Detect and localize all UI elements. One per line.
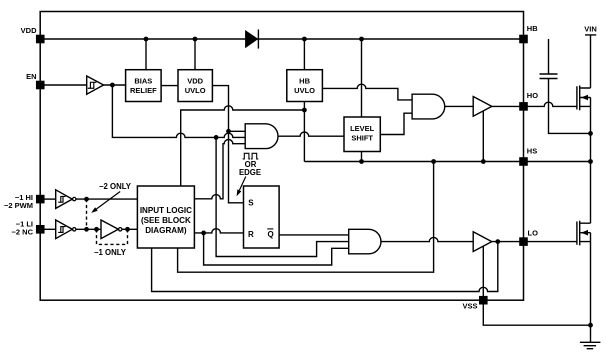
wire LO buffer output to LO pin and gate: [492, 241, 577, 243]
IC outline box: [40, 12, 523, 301]
node HO buffer ref junction: [481, 159, 486, 164]
pin VDD: [37, 35, 44, 42]
wire HI input to Schmitt inverter: [40, 198, 56, 200]
box BIAS RELIEF: [126, 70, 162, 102]
inverter optional -1 only: [101, 220, 118, 239]
svg-text:S: S: [248, 199, 254, 208]
svg-text:VDD: VDD: [21, 26, 37, 35]
wire LO buffer bottom reference to VSS pin: [482, 246, 484, 300]
box LEVEL SHIFT: [344, 117, 380, 152]
svg-text:BIAS: BIAS: [134, 77, 152, 86]
node diode-HBUVLO junction: [302, 37, 307, 42]
wire dashed inverter bypass (-1 option): [97, 229, 128, 244]
annotation arrow or-edge: [239, 177, 245, 191]
wire optional inverter output to INPUT LOGIC: [122, 228, 137, 230]
ground: [580, 342, 601, 348]
pin VSS: [480, 297, 487, 304]
svg-text:−2 ONLY: −2 ONLY: [99, 182, 132, 191]
wire EN down and across to high-side AND input 2: [112, 85, 245, 137]
and-gate low-side 3-input U5: [349, 229, 381, 254]
svg-text:−2 PWM: −2 PWM: [4, 201, 33, 210]
wire LEVEL SHIFT bottom to HS line: [361, 152, 363, 162]
wire VSS external to ground: [483, 300, 590, 325]
svg-text:HS: HS: [527, 146, 537, 155]
svg-text:LEVEL: LEVEL: [350, 124, 375, 133]
wire EN buffer output to BIAS RELIEF: [104, 84, 126, 86]
node ground junction: [588, 323, 593, 328]
wire INPUT LOGIC top to HB UVLO node: [181, 106, 305, 186]
capacitor C1 bootstrap: [540, 74, 558, 79]
node HI junction: [84, 197, 89, 202]
node VDD-BIAS junction: [144, 37, 149, 42]
svg-text:Q: Q: [268, 230, 274, 239]
wire BIAS RELIEF to VDD UVLO: [161, 85, 178, 87]
node R line junction: [201, 231, 206, 236]
node cap to source junction: [588, 131, 593, 136]
op-amp EN Schmitt buffer: [87, 76, 104, 94]
wire LI input to Schmitt inverter: [40, 228, 56, 230]
diode D1 bootstrap: [246, 31, 257, 47]
node HS feedback junction: [431, 159, 436, 164]
svg-text:RELIEF: RELIEF: [130, 86, 157, 95]
pin EN: [37, 81, 44, 88]
svg-text:DIAGRAM): DIAGRAM): [145, 226, 187, 235]
pin HI: [37, 196, 44, 203]
wire HB UVLO output to top AND input 1: [322, 84, 412, 100]
svg-text:HB: HB: [299, 77, 310, 86]
svg-text:SHIFT: SHIFT: [351, 134, 373, 143]
svg-text:HO: HO: [527, 91, 538, 100]
wire latch Q output to low-side AND input 1: [279, 234, 349, 236]
wire low-side source to ground: [590, 233, 592, 343]
svg-text:EDGE: EDGE: [239, 168, 261, 177]
node VDD UVLO to AND tap: [226, 129, 231, 134]
wire INPUT LOGIC to latch R input: [194, 229, 243, 233]
wire HB to bootstrap cap: [548, 39, 550, 74]
wire cap bottom to switch node: [549, 79, 591, 134]
wire VDD UVLO output down to latch S input: [212, 86, 243, 203]
and-gate high-side 3-input U3: [245, 124, 278, 149]
wire EN node down to low-side AND input 2: [216, 137, 349, 256]
svg-text:UVLO: UVLO: [185, 86, 206, 95]
svg-text:EN: EN: [26, 72, 36, 81]
wire tap to high-side AND input 1: [229, 130, 246, 132]
pin LI: [37, 226, 44, 233]
svg-text:R: R: [248, 230, 254, 239]
wire HS line: [304, 161, 590, 163]
svg-text:LO: LO: [528, 229, 539, 238]
wire AND U4 output to HO buffer: [445, 105, 473, 107]
inverter HI Schmitt: [56, 190, 73, 209]
wire HS feedback to INPUT LOGIC: [178, 162, 434, 273]
pin HO: [520, 103, 527, 110]
wire R node to low-side AND input 3: [204, 233, 349, 265]
svg-text:UVLO: UVLO: [294, 86, 315, 95]
wire HB UVLO bottom to HS line: [303, 102, 305, 162]
node EN line junction: [214, 135, 219, 140]
svg-text:VIN: VIN: [584, 24, 597, 33]
node rail-levelshift junction: [359, 37, 364, 42]
wire VDD rail to VDD UVLO: [194, 39, 196, 70]
node LO buffer output junction: [495, 239, 500, 244]
wire VDD rail to HB UVLO: [303, 39, 305, 70]
and-gate top 2-input U4: [412, 94, 445, 119]
node HB UVLO bottom junction: [302, 108, 307, 113]
wire LEVEL SHIFT output to top AND input 2: [380, 113, 412, 134]
svg-text:−1 ONLY: −1 ONLY: [94, 248, 127, 257]
node LI junction 1: [84, 227, 89, 232]
node EN output junction: [110, 83, 115, 88]
op-amp HO driver buffer: [473, 97, 492, 117]
wire AND U5 output to LO buffer: [381, 237, 473, 241]
node VDD-UVLO junction: [193, 37, 198, 42]
transistor Q2 low-side NMOS: [577, 221, 591, 246]
inverter LI Schmitt: [56, 220, 73, 239]
box INPUT LOGIC: [137, 186, 194, 248]
wire dashed HI-LI tie (-2 option): [86, 199, 88, 229]
annotation pulse glyphs: [243, 153, 259, 159]
svg-text:(SEE BLOCK: (SEE BLOCK: [141, 216, 191, 225]
wire VDD rail to LEVEL SHIFT top: [361, 39, 363, 117]
svg-text:VDD: VDD: [187, 77, 203, 86]
node LI junction 3: [125, 227, 130, 232]
wire AND U3 output to LEVEL SHIFT: [278, 132, 344, 136]
pin HB: [520, 35, 527, 42]
node HS rail junction: [588, 159, 593, 164]
node levelshift-HS junction: [359, 159, 364, 164]
box VDD UVLO: [178, 70, 212, 102]
svg-text:INPUT LOGIC: INPUT LOGIC: [140, 206, 192, 215]
wire HI inverter output to INPUT LOGIC: [76, 198, 137, 200]
wire switch node rail: [590, 98, 592, 224]
op-amp LO driver buffer: [473, 232, 492, 252]
wire INPUT LOGIC top output to AND U3 input 3: [194, 140, 245, 199]
svg-text:HB: HB: [527, 24, 538, 33]
wire EN to buffer: [40, 84, 86, 86]
transistor Q1 high-side NMOS: [577, 86, 591, 111]
wire HO buffer output to HO pin and gate: [492, 102, 577, 106]
wire LI inverter output to optional inverter: [76, 228, 101, 230]
wire VIN supply: [585, 35, 596, 88]
wire VDD rail: [40, 38, 523, 40]
node LI junction 2: [94, 227, 99, 232]
wire HO buffer bottom reference to HS line: [482, 111, 484, 162]
wire VDD rail to BIAS RELIEF: [145, 39, 147, 70]
box SR latch U2: [244, 186, 280, 248]
pin HS: [520, 158, 527, 165]
box HB UVLO: [287, 70, 323, 102]
svg-text:−2 NC: −2 NC: [12, 227, 34, 236]
wire LO feedback to INPUT LOGIC: [152, 242, 498, 292]
svg-text:VSS: VSS: [462, 302, 477, 311]
pin LO: [520, 238, 527, 245]
annotation arrow -2 only: [96, 192, 120, 210]
